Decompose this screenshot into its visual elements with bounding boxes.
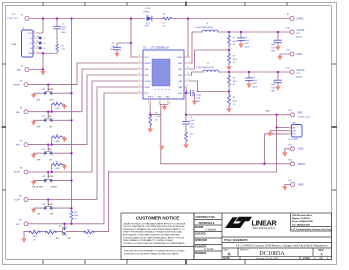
wire GND E11 <box>280 54 290 56</box>
svg-text:GND: GND <box>166 96 171 98</box>
svg-text:GRN: GRN <box>145 25 150 27</box>
svg-text:E3: E3 <box>20 80 22 82</box>
ground (U1 GND) <box>162 106 167 111</box>
wire top rail LED to R5 <box>154 18 176 20</box>
svg-text:LTC Confidential For Customer: LTC Confidential For Customer Use Only <box>292 228 332 231</box>
svg-text:R9: R9 <box>56 162 58 164</box>
svg-text:C9: C9 <box>190 117 192 119</box>
svg-text:E6: E6 <box>20 167 22 169</box>
wire CHRG pin vertical <box>187 19 189 58</box>
jumper JP5 posts <box>44 179 52 182</box>
wire C5 stems <box>277 32 279 46</box>
node E17 GND <box>291 147 295 151</box>
wire GND line <box>161 163 291 165</box>
svg-text:C2: C2 <box>112 43 114 45</box>
svg-text:HPWR: HPWR <box>48 89 54 91</box>
wire JP5 stem <box>64 224 66 227</box>
capacitor C3 <box>238 38 245 41</box>
LED D1 <box>147 16 152 21</box>
jumper JP3 posts <box>44 152 52 155</box>
svg-text:C6: C6 <box>273 81 275 83</box>
svg-text:100%: 100% <box>49 100 54 102</box>
svg-text:DRAWN: DRAWN <box>195 226 204 229</box>
wire BAT to NTC vertical <box>276 115 278 172</box>
ground (C6) <box>275 86 280 91</box>
svg-text:GND: GND <box>298 148 304 151</box>
wire FB2 tap <box>190 81 230 92</box>
terminal posts <box>24 17 295 226</box>
label C6 <box>271 81 276 93</box>
svg-text:D-: D- <box>43 38 46 40</box>
svg-text:GND: GND <box>298 183 304 186</box>
svg-text:GND: GND <box>158 96 163 98</box>
svg-text:0805: 0805 <box>271 51 275 53</box>
wire BAT pin <box>185 87 187 115</box>
svg-text:CONTRACT NO.: CONTRACT NO. <box>196 215 216 219</box>
svg-text:MODE: MODE <box>48 176 54 178</box>
ground (JP6 pin2) <box>268 132 273 137</box>
label R4 divider <box>233 97 237 106</box>
svg-text:APPLICATION. COMPONENT SUBSTI: APPLICATION. COMPONENT SUBSTITUTION AND … <box>123 234 180 237</box>
svg-text:EN1: EN1 <box>145 69 149 71</box>
svg-text:1630 McCarthy Blvd.: 1630 McCarthy Blvd. <box>292 214 312 217</box>
svg-text:1k: 1k <box>163 22 165 24</box>
svg-text:C3: C3 <box>245 37 247 39</box>
wire BAT rail <box>186 114 291 116</box>
IC U1 body <box>143 50 184 99</box>
svg-text:TECHNOLOGY APPLICATIONS ENGINE: TECHNOLOGY APPLICATIONS ENGINEERING FOR … <box>123 242 185 245</box>
svg-text:SUSP: SUSP <box>145 87 151 89</box>
svg-text:12: 12 <box>139 85 141 87</box>
label R1 divider <box>233 37 237 46</box>
svg-text:(1MA): (1MA) <box>145 7 151 10</box>
svg-text:NTC: NTC <box>145 93 150 95</box>
wire top rail to CHRG terminal <box>175 18 290 20</box>
capacitor C1 <box>54 26 61 29</box>
ground (C5) <box>275 46 280 51</box>
svg-text:CUSTOMER NOTICE: CUSTOMER NOTICE <box>136 216 179 221</box>
U1 left pin stubs <box>138 57 143 93</box>
wire NTC-EXT line <box>109 171 277 173</box>
svg-text:PULSE SKIP: PULSE SKIP <box>32 187 44 189</box>
wire divider1 <box>228 32 230 66</box>
svg-text:1%: 1% <box>155 119 158 121</box>
capacitor C4 <box>246 78 253 81</box>
svg-text:1%: 1% <box>233 104 236 106</box>
resistor R6 <box>149 115 152 126</box>
svg-text:GND: GND <box>16 70 21 72</box>
svg-text:SUSP: SUSP <box>48 204 54 206</box>
capacitor C9 <box>183 122 190 125</box>
connector J1 USB <box>22 30 34 57</box>
label R6 <box>155 112 160 121</box>
label R14 <box>190 134 193 140</box>
svg-text:1.1k: 1.1k <box>62 49 66 51</box>
testpoint D+ <box>39 42 42 45</box>
label R1 input <box>62 45 66 50</box>
svg-text:E15: E15 <box>288 180 291 182</box>
wire VCC vertical rail x71.5 <box>71 19 73 224</box>
wire R8 stem <box>52 137 65 145</box>
wire NTC resistor chain <box>24 172 109 234</box>
node E9 CHRG <box>290 17 294 21</box>
svg-text:MODE: MODE <box>14 172 21 174</box>
pin numbers U1 left <box>34 31 291 134</box>
label C4 <box>253 77 258 89</box>
resistor R1 divider <box>228 36 231 47</box>
svg-text:20%: 20% <box>37 100 41 102</box>
label R3 divider <box>233 77 237 86</box>
svg-text:C4: C4 <box>253 77 255 79</box>
ground (R6) <box>148 128 153 133</box>
svg-text:R14: R14 <box>190 134 193 136</box>
svg-text:BURST: BURST <box>51 187 58 189</box>
node E4 EN1 <box>24 110 28 114</box>
wire HPWR row <box>28 63 138 85</box>
wire U1 VCC feed <box>131 19 138 58</box>
svg-text:R11: R11 <box>74 212 77 214</box>
svg-text:1.00M: 1.00M <box>54 168 60 170</box>
LED leads <box>144 18 154 20</box>
jumper JP2 posts <box>44 119 52 122</box>
wire MODE jumper arms <box>34 172 72 181</box>
node E16 PROG <box>291 162 295 166</box>
svg-text:0: 0 <box>88 236 89 238</box>
node E3 HPWR <box>24 83 28 87</box>
svg-text:R7: R7 <box>56 102 58 104</box>
svg-text:LTC3559EUD: LTC3559EUD <box>151 46 170 50</box>
svg-text:SUSP: SUSP <box>14 200 20 202</box>
wire R7 stem <box>52 104 65 112</box>
resistor R12 <box>84 231 94 234</box>
resistor R13 <box>46 231 56 234</box>
wire HPWR jumper arms <box>34 85 72 94</box>
capacitor C6 <box>275 80 282 83</box>
capacitor C8 <box>191 90 194 96</box>
ground symbols <box>21 44 287 243</box>
svg-text:Fax: (408)434-0507: Fax: (408)434-0507 <box>292 223 311 226</box>
svg-text:TITLE: SCHEMATIC: TITLE: SCHEMATIC <box>224 238 248 242</box>
svg-text:Milpitas, CA 95035: Milpitas, CA 95035 <box>292 217 311 220</box>
jumper JP1 posts <box>44 92 52 95</box>
wire NTC gnd stem <box>23 232 25 239</box>
node E1 VCC <box>25 17 29 21</box>
svg-text:THIS CIRCUIT IS PROPRIETARY TO: THIS CIRCUIT IS PROPRIETARY TO LINEAR TE… <box>124 249 185 252</box>
ground (JP5) <box>31 181 36 186</box>
ground (C4) <box>246 84 251 89</box>
wire U1 gnd drop <box>160 105 162 164</box>
wire C4 stems <box>248 72 250 84</box>
svg-text:R4: R4 <box>233 97 235 99</box>
svg-text:R3: R3 <box>233 77 235 79</box>
wire C8 branch <box>186 93 195 101</box>
wire C2 branch <box>117 43 131 53</box>
capacitor C5 <box>275 40 282 43</box>
ground (E15) <box>282 186 287 191</box>
svg-text:VOUT1: VOUT1 <box>297 29 306 32</box>
svg-text:C8: C8 <box>196 91 198 93</box>
wire NTC row <box>28 93 138 224</box>
resistor R8 <box>53 136 63 139</box>
ground (E17) <box>282 152 287 157</box>
svg-text:0.1µF: 0.1µF <box>196 94 202 96</box>
svg-text:VERIFY PROPER AND RELIABLE OPE: VERIFY PROPER AND RELIABLE OPERATION IN … <box>123 231 183 234</box>
svg-text:E2: E2 <box>21 65 23 67</box>
svg-text:100k: 100k <box>33 236 37 238</box>
node E5 EN2 <box>24 143 28 147</box>
svg-text:100k: 100k <box>74 215 78 217</box>
testpoint D- <box>39 37 42 40</box>
inductor L1 <box>202 30 218 32</box>
svg-text:1%: 1% <box>33 240 36 242</box>
svg-text:A.: A. <box>321 252 324 256</box>
svg-text:VCC: VCC <box>28 33 33 35</box>
jumper JP4 posts <box>44 207 52 210</box>
wire MODE row <box>28 81 138 172</box>
svg-text:HPWR: HPWR <box>14 85 21 87</box>
svg-text:CIRCUIT BOARD LAYOUT MAY SIGNI: CIRCUIT BOARD LAYOUT MAY SIGNIFICANTLY A… <box>123 236 185 239</box>
svg-text:PROG: PROG <box>298 163 305 166</box>
wire SW2 to L2 <box>190 72 204 75</box>
svg-text:CHRG: CHRG <box>143 12 150 14</box>
wire U1 gnd pins <box>160 104 168 106</box>
svg-text:E12: E12 <box>19 220 22 222</box>
node E10 VOUT1 <box>290 30 294 34</box>
svg-text:301k: 301k <box>233 59 237 61</box>
svg-text:BAT: BAT <box>298 112 303 115</box>
svg-text:E4: E4 <box>20 108 22 110</box>
svg-text:E6: E6 <box>37 41 39 43</box>
wire EN1 row <box>28 69 138 112</box>
ground (JP4) <box>31 209 36 214</box>
ground (JP1) <box>31 94 36 99</box>
resistor R2 divider <box>228 54 231 65</box>
wire EN1 jumper arms <box>34 112 72 121</box>
address <box>292 214 332 231</box>
ground (C2) <box>114 53 119 58</box>
svg-text:J. Mitchell: J. Mitchell <box>205 228 216 232</box>
wire C9 R14 chain <box>185 115 187 144</box>
svg-text:1: 1 <box>190 137 191 139</box>
svg-text:R12: R12 <box>87 230 90 232</box>
label R2 divider <box>233 55 237 64</box>
svg-text:4.35V - 5.5V: 4.35V - 5.5V <box>7 18 18 20</box>
resistor R11 <box>70 212 73 221</box>
ground (C3) <box>238 44 243 49</box>
svg-text:17: 17 <box>169 102 171 104</box>
wire VBUS top rail left <box>29 18 144 20</box>
svg-text:R1: R1 <box>233 37 235 39</box>
label C3 <box>245 37 250 49</box>
svg-text:NTC: NTC <box>16 224 21 226</box>
wire JP6 pin2 <box>270 131 289 133</box>
wire J1 pin1 to rail <box>37 19 44 34</box>
svg-text:1.74k: 1.74k <box>155 116 160 118</box>
customer notice box <box>121 213 194 260</box>
svg-text:1%: 1% <box>233 84 236 86</box>
svg-text:LINEAR TECHNOLOGY HAS MADE A B: LINEAR TECHNOLOGY HAS MADE A BEST EFFORT… <box>123 222 186 225</box>
wire J1 gnd pin down <box>37 53 44 70</box>
svg-text:1.00M: 1.00M <box>54 108 60 110</box>
svg-text:Thursday, July 05, 2007: Thursday, July 05, 2007 <box>255 257 279 260</box>
svg-text:OF: OF <box>320 257 324 260</box>
svg-text:1%: 1% <box>233 44 236 46</box>
wire SW1 to L1 <box>190 32 203 63</box>
svg-text:HPWR: HPWR <box>145 63 151 65</box>
svg-text:0: 0 <box>50 236 51 238</box>
ground (JP3) <box>31 154 36 159</box>
svg-text:E5: E5 <box>20 140 22 142</box>
node E6 MODE <box>24 170 28 174</box>
node E11 GND <box>290 52 294 56</box>
svg-text:DATE: DATE <box>224 257 231 260</box>
ground (C8) <box>192 101 197 106</box>
wire R6 <box>149 115 151 129</box>
svg-text:0805: 0805 <box>196 101 200 103</box>
ground (R8) <box>62 138 67 143</box>
svg-text:10: 10 <box>139 91 141 93</box>
svg-text:400mA: 400mA <box>296 36 303 39</box>
wire JP6 pin3 <box>264 134 289 164</box>
resistor R14 <box>185 132 188 142</box>
svg-text:R6: R6 <box>155 112 157 114</box>
connector JP6 <box>292 125 303 138</box>
svg-text:PROG: PROG <box>148 96 154 98</box>
ground (R7) <box>62 105 67 110</box>
ground (NTC chain) <box>21 238 26 243</box>
svg-text:DC1085A: DC1085A <box>259 250 285 257</box>
wire GND E15 <box>285 185 291 187</box>
svg-text:R1: R1 <box>62 45 64 47</box>
svg-text:E11: E11 <box>19 195 22 197</box>
resistor R1 (input) <box>56 44 59 52</box>
svg-text:E7: E7 <box>37 46 39 48</box>
node E15 GND <box>291 183 295 187</box>
svg-text:APPROVALS: APPROVALS <box>199 221 215 225</box>
svg-text:1%: 1% <box>74 219 77 221</box>
testpoint ID <box>39 47 42 50</box>
J1 pin stubs <box>33 33 39 53</box>
svg-text:DWG NO.: DWG NO. <box>240 250 249 252</box>
resistor R4 divider <box>228 95 231 106</box>
svg-text:EN1: EN1 <box>48 116 52 118</box>
svg-text:301k: 301k <box>233 81 237 83</box>
svg-text:1.00M: 1.00M <box>54 141 60 143</box>
svg-text:1%: 1% <box>233 62 236 64</box>
label C8 <box>196 91 202 103</box>
svg-text:E11: E11 <box>286 50 289 52</box>
label C1 <box>62 24 67 34</box>
wire C6 stems <box>277 72 279 86</box>
wire C3 stems <box>240 32 242 44</box>
svg-text:APPROVED: APPROVED <box>195 239 208 242</box>
svg-text:R8: R8 <box>56 135 58 137</box>
ground (J1/E2) <box>40 71 45 76</box>
svg-text:DESIGNER: DESIGNER <box>195 253 207 255</box>
title block main <box>194 213 332 260</box>
svg-text:4.7µH 1008SQ-4R7M: 4.7µH 1008SQ-4R7M <box>195 27 213 29</box>
wire GND terminal E2 <box>29 70 43 72</box>
svg-text:0805: 0805 <box>245 46 249 48</box>
svg-text:EN2: EN2 <box>48 149 52 151</box>
wire JP6 pin1 <box>277 127 289 129</box>
capacitor C2 <box>114 47 121 50</box>
U1 bottom pin stubs <box>150 99 168 104</box>
svg-text:604k: 604k <box>233 41 237 43</box>
node E8 NTC <box>24 222 28 226</box>
wire SUSP jumper arms <box>34 200 72 209</box>
wire EN2 jumper arms <box>34 145 72 154</box>
svg-text:0805: 0805 <box>190 127 194 129</box>
svg-text:14: 14 <box>139 61 141 63</box>
svg-text:HOWEVER, IT REMAINS THE CUSTOM: HOWEVER, IT REMAINS THE CUSTOMER'S RESPO… <box>123 228 185 231</box>
svg-text:CHRG: CHRG <box>177 57 183 59</box>
svg-text:0805: 0805 <box>253 86 257 88</box>
svg-text:PVIN: PVIN <box>178 93 183 95</box>
svg-text:E13: E13 <box>288 110 291 112</box>
ground (E11) <box>277 56 282 61</box>
svg-text:4.7µH 1008SQ-4R7M: 4.7µH 1008SQ-4R7M <box>196 67 214 69</box>
node E7 SUSP <box>24 198 28 202</box>
svg-text:LTC3559EUD Linear USB Battery: LTC3559EUD Linear USB Battery Charger wi… <box>236 243 328 247</box>
svg-text:USB: USB <box>12 44 17 46</box>
svg-text:A. Crofts: A. Crofts <box>203 247 214 251</box>
label C9 <box>190 117 196 129</box>
svg-text:SW2: SW2 <box>178 75 182 77</box>
svg-text:11: 11 <box>186 85 188 87</box>
ground (R9) <box>62 165 67 170</box>
svg-text:FB1: FB1 <box>179 69 182 71</box>
wire VOUT1 rail <box>218 31 290 33</box>
svg-text:0805: 0805 <box>271 91 275 93</box>
resistor R10 <box>30 231 40 234</box>
svg-text:CHRG: CHRG <box>297 18 304 21</box>
LT logo <box>225 217 277 230</box>
svg-text:E5: E5 <box>37 36 39 38</box>
wire R9 stem <box>52 165 65 173</box>
wire PROG net <box>150 103 161 115</box>
ground (JP2) <box>31 121 36 126</box>
svg-text:0805: 0805 <box>62 32 66 34</box>
svg-text:E9: E9 <box>287 14 289 16</box>
wire GND E17 <box>285 149 291 153</box>
jumper JP7 NTC posts <box>63 227 67 235</box>
svg-text:PERFORMANCE OR RELIABILITY. C: PERFORMANCE OR RELIABILITY. CONTACT LINE… <box>123 239 173 242</box>
ground (R4) <box>226 108 231 113</box>
ground (R14) <box>183 144 188 149</box>
resistor R9 <box>53 163 63 166</box>
svg-text:C1: C1 <box>62 24 64 26</box>
svg-text:16: 16 <box>187 67 189 69</box>
svg-text:FLOAT = 4.2V: FLOAT = 4.2V <box>298 115 311 118</box>
resistor R5 <box>163 17 172 20</box>
svg-text:SUPPLIED FOR USE WITH LINEAR T: SUPPLIED FOR USE WITH LINEAR TECHNOLOGY … <box>124 253 180 256</box>
svg-text:Phone: (408)432-1900: Phone: (408)432-1900 <box>292 220 314 223</box>
ground (U1 GND drop) <box>159 146 164 151</box>
svg-text:GND: GND <box>297 53 303 56</box>
svg-text:R2: R2 <box>233 55 235 57</box>
svg-text:CIRCUIT THAT MEETS CUSTOMER-SU: CIRCUIT THAT MEETS CUSTOMER-SUPPLIED SPE… <box>123 225 185 228</box>
wire EN2 row <box>28 75 138 145</box>
wire SUSP row <box>28 87 138 200</box>
label C2 <box>110 43 115 51</box>
wire FB1 tap <box>190 50 230 69</box>
svg-text:TECHNOLOGY: TECHNOLOGY <box>252 226 275 230</box>
svg-text:C5: C5 <box>273 41 275 43</box>
label C5 <box>271 41 276 53</box>
svg-text:E1: E1 <box>21 14 23 16</box>
svg-text:SHEET: SHEET <box>303 257 312 260</box>
